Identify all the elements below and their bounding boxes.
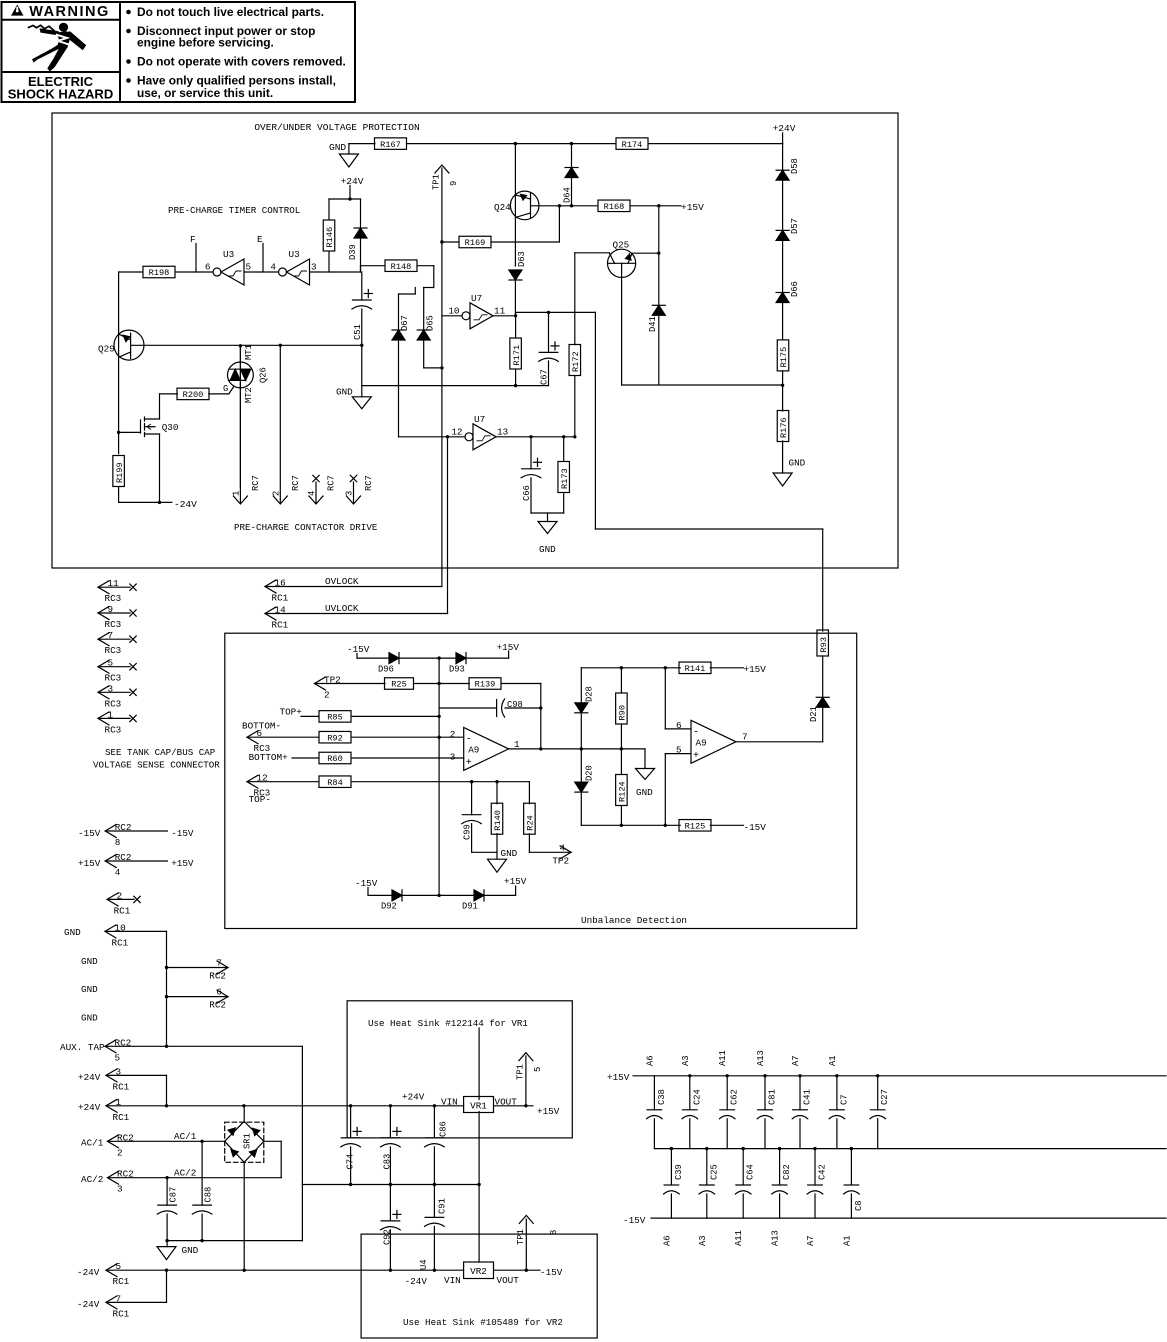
svg-text:TP2: TP2 — [552, 855, 569, 866]
wire pin11 output rail — [493, 315, 516, 317]
svg-text:PRE-CHARGE CONTACTOR DRIVE: PRE-CHARGE CONTACTOR DRIVE — [234, 522, 378, 533]
wire top rail — [407, 143, 616, 145]
inverter U3 pin4-3 — [279, 268, 287, 276]
svg-text:D57: D57 — [790, 218, 800, 234]
wire window comparator top rail — [581, 667, 680, 669]
resistor R85 — [319, 711, 351, 723]
svg-text:C38: C38 — [657, 1089, 667, 1105]
wire comparator out down to R93 line — [594, 312, 596, 529]
test point TP1 pin9 — [435, 165, 449, 173]
svg-text:AC/2: AC/2 — [174, 1168, 196, 1179]
svg-text:8: 8 — [115, 837, 121, 848]
svg-text:4: 4 — [115, 867, 121, 878]
wire A9 second output — [736, 741, 823, 743]
wire summing bus — [438, 658, 440, 895]
svg-text:+15V: +15V — [78, 858, 101, 869]
svg-text:C24: C24 — [692, 1089, 702, 1105]
wire SR1 right to AC/2 — [264, 1140, 281, 1142]
svg-text:R174: R174 — [622, 140, 643, 150]
connector RC7 pin2 — [279, 345, 281, 503]
warning box frame — [2, 2, 356, 102]
svg-text:RC7: RC7 — [251, 475, 261, 491]
svg-text:3: 3 — [311, 262, 317, 273]
ground under R140 — [488, 859, 507, 872]
svg-text:GND: GND — [789, 458, 806, 469]
wire C66-R173 gnd — [531, 512, 564, 514]
svg-text:GND: GND — [636, 787, 653, 798]
svg-text:BOTTOM+: BOTTOM+ — [249, 752, 288, 763]
wire comparator bottom rail — [581, 824, 680, 826]
diode D91 — [474, 890, 484, 901]
svg-text:Unbalance Detection: Unbalance Detection — [581, 915, 687, 926]
svg-text:GND: GND — [81, 1013, 98, 1024]
svg-text:TP1: TP1 — [516, 1064, 526, 1080]
svg-text:D28: D28 — [585, 686, 595, 702]
resistor R92 — [319, 731, 351, 743]
svg-text:8: 8 — [549, 1230, 559, 1235]
connector RC7 pin4 — [313, 475, 319, 481]
resistor R24 — [528, 782, 530, 804]
capacitor C83 — [389, 1106, 391, 1138]
connector RC7 pin3 — [350, 475, 356, 481]
svg-text:RC2: RC2 — [209, 1000, 226, 1011]
svg-text:-24V: -24V — [405, 1276, 428, 1287]
capacitor C91 — [433, 1185, 435, 1218]
diode D93 — [456, 653, 466, 664]
resistor R172 — [574, 253, 576, 345]
svg-text:R200: R200 — [183, 390, 204, 400]
svg-text:R141: R141 — [685, 664, 706, 674]
capacitor C98 — [439, 707, 497, 709]
svg-text:C87: C87 — [169, 1187, 179, 1203]
svg-text:+15V: +15V — [497, 642, 520, 653]
svg-text:10: 10 — [448, 305, 459, 316]
svg-text:+15V: +15V — [171, 858, 194, 869]
svg-text:GND: GND — [539, 544, 556, 555]
svg-text:A9: A9 — [468, 744, 479, 755]
warning bullet list — [126, 10, 131, 15]
svg-text:D41: D41 — [648, 316, 658, 332]
svg-text:5: 5 — [676, 745, 682, 756]
connector RC1 pin2 — [107, 893, 118, 906]
resistor R125 — [679, 820, 711, 832]
unbalance detection box — [225, 633, 857, 928]
svg-text:+15V: +15V — [681, 202, 704, 213]
svg-text:R171: R171 — [512, 345, 522, 366]
diode D21 — [816, 696, 829, 698]
svg-text:U3: U3 — [223, 249, 234, 260]
connector RC2 pin6 — [167, 996, 229, 998]
wire A9 output row — [509, 748, 645, 750]
resistor R140 — [491, 803, 503, 834]
svg-text:11: 11 — [494, 305, 506, 316]
connector RC3 pin1 — [98, 712, 109, 725]
svg-text:+24V: +24V — [773, 123, 796, 134]
heat sink box VR1 — [347, 1001, 572, 1138]
wire R148 to diodes — [417, 265, 434, 267]
svg-text:C41: C41 — [803, 1089, 813, 1105]
svg-text:-15V: -15V — [355, 878, 378, 889]
svg-text:2: 2 — [324, 690, 330, 701]
wire between inverters — [244, 271, 278, 273]
svg-text:+24V: +24V — [341, 176, 364, 187]
svg-text:6: 6 — [205, 262, 211, 273]
capacitor C42 — [813, 1147, 816, 1150]
capacitor C86 — [433, 1106, 435, 1138]
capacitor C88 — [201, 1141, 203, 1205]
diode D41 — [658, 206, 660, 305]
svg-text:RC3: RC3 — [105, 724, 122, 735]
electric shock icon — [29, 25, 55, 30]
svg-text:R168: R168 — [604, 202, 625, 212]
connector RC1 pin14 UVLOCK — [265, 607, 276, 620]
svg-text:Q24: Q24 — [494, 202, 511, 213]
svg-text:12: 12 — [451, 426, 462, 437]
svg-text:RC2: RC2 — [209, 971, 226, 982]
wire SR1 bottom to -24V rail — [243, 1162, 245, 1270]
svg-text:A11: A11 — [734, 1230, 744, 1246]
svg-text:-15V: -15V — [623, 1215, 646, 1226]
capacitor C27 — [876, 1074, 879, 1077]
svg-text:+15V: +15V — [607, 1072, 630, 1083]
wire pin13 output — [496, 436, 575, 438]
svg-text:SR1: SR1 — [243, 1133, 253, 1149]
svg-text:TP1: TP1 — [432, 174, 442, 190]
svg-text:-: - — [693, 727, 699, 738]
svg-text:OVER/UNDER VOLTAGE PROTECTION: OVER/UNDER VOLTAGE PROTECTION — [254, 122, 419, 133]
svg-text:3: 3 — [117, 1184, 123, 1195]
svg-text:-: - — [466, 734, 472, 745]
wire jog to R148 — [360, 266, 362, 272]
svg-text:VR1: VR1 — [470, 1101, 487, 1112]
svg-text:GND: GND — [336, 387, 353, 398]
wire rail to +24V corner — [649, 143, 783, 145]
svg-text:C91: C91 — [438, 1198, 448, 1214]
resistor R169 — [440, 240, 443, 243]
svg-text:R60: R60 — [327, 754, 342, 764]
wire aux tap down — [301, 1046, 303, 1240]
resistor R90 — [616, 693, 628, 724]
ground bottom left — [166, 1241, 168, 1247]
capacitor C66 — [530, 437, 532, 469]
svg-text:-24V: -24V — [174, 499, 197, 510]
mosfet Q30 — [119, 431, 141, 433]
svg-text:RC3: RC3 — [105, 698, 122, 709]
resistor R60 — [319, 752, 351, 764]
wire mid gnd rail — [302, 1184, 479, 1186]
resistor R176 — [777, 411, 789, 442]
svg-text:GND: GND — [81, 956, 98, 967]
svg-text:TOP-: TOP- — [249, 794, 271, 805]
svg-text:GND: GND — [329, 142, 346, 153]
svg-text:Use Heat Sink #122144 for VR1: Use Heat Sink #122144 for VR1 — [368, 1018, 528, 1029]
test point TP1 pin8 — [525, 1219, 527, 1270]
svg-text:R125: R125 — [685, 822, 706, 832]
svg-text:A6: A6 — [662, 1235, 672, 1246]
regulator VR1 — [464, 1097, 494, 1113]
svg-text:6: 6 — [676, 720, 682, 731]
svg-text:+24V: +24V — [402, 1092, 425, 1103]
svg-text:MT2: MT2 — [244, 387, 254, 403]
wire gnd stack vertical — [166, 931, 168, 1046]
svg-text:2: 2 — [450, 729, 456, 740]
svg-text:+15V: +15V — [537, 1106, 560, 1117]
resistor R146 — [328, 199, 330, 219]
svg-text:D67: D67 — [400, 315, 410, 331]
svg-text:3: 3 — [450, 752, 456, 763]
svg-text:-15V: -15V — [540, 1267, 563, 1278]
svg-text:RC3: RC3 — [105, 619, 122, 630]
svg-text:OVLOCK: OVLOCK — [325, 576, 359, 587]
svg-text:A3: A3 — [681, 1055, 691, 1066]
svg-text:U7: U7 — [471, 293, 482, 304]
svg-text:D93: D93 — [449, 665, 465, 675]
svg-text:MT1: MT1 — [244, 344, 254, 360]
ground mid stub — [644, 749, 646, 769]
svg-text:D20: D20 — [585, 765, 595, 781]
connector RC3 pin6 — [247, 731, 258, 744]
resistor R124 — [616, 775, 628, 806]
svg-text:D66: D66 — [790, 281, 800, 297]
connector RC3 pin5 — [98, 660, 109, 673]
svg-text:RC3: RC3 — [105, 593, 122, 604]
svg-text:RC7: RC7 — [327, 475, 337, 491]
svg-text:F: F — [190, 234, 196, 245]
svg-text:R146: R146 — [325, 227, 335, 248]
svg-text:GND: GND — [81, 984, 98, 995]
connector RC3 pin7 — [98, 633, 109, 646]
svg-text:R90: R90 — [618, 705, 628, 720]
svg-text:RC1: RC1 — [113, 1081, 130, 1092]
diode D64 — [571, 144, 573, 168]
svg-text:R139: R139 — [475, 680, 496, 690]
svg-text:RC1: RC1 — [114, 905, 131, 916]
resistor R175 — [777, 340, 789, 371]
op-amp A9 second — [664, 668, 666, 729]
svg-text:R176: R176 — [779, 417, 789, 438]
svg-text:C81: C81 — [768, 1089, 778, 1105]
regulator VR2 — [464, 1262, 494, 1279]
svg-text:A1: A1 — [842, 1235, 852, 1246]
svg-text:E: E — [257, 234, 263, 245]
wire gnd rail bottom left — [167, 1240, 302, 1242]
svg-text:VIN: VIN — [441, 1096, 458, 1107]
svg-text:UVLOCK: UVLOCK — [325, 603, 359, 614]
svg-text:C27: C27 — [880, 1089, 890, 1105]
svg-text:4: 4 — [560, 842, 566, 853]
svg-text:C88: C88 — [204, 1187, 214, 1203]
connector RC1 pin16 OVLOCK — [265, 580, 276, 593]
svg-text:RC1: RC1 — [113, 1276, 130, 1287]
test point TP2 pin4 — [529, 851, 571, 853]
svg-text:R140: R140 — [493, 810, 503, 831]
wire -24V rail bottom — [106, 1269, 464, 1271]
resistor R93 feed — [822, 529, 824, 631]
svg-text:A3: A3 — [698, 1235, 708, 1246]
resistor R148 — [385, 260, 417, 272]
svg-text:A13: A13 — [756, 1050, 766, 1066]
connector RC3 pin3 — [98, 686, 109, 699]
svg-text:VR2: VR2 — [470, 1266, 487, 1277]
connector RC3 pin12 — [247, 775, 258, 788]
resistor R198 — [119, 271, 143, 273]
svg-text:A6: A6 — [645, 1055, 655, 1066]
svg-text:1: 1 — [232, 491, 242, 496]
svg-text:5: 5 — [533, 1067, 543, 1072]
svg-text:C82: C82 — [782, 1164, 792, 1180]
wire Q29 collector row — [131, 344, 362, 346]
svg-text:-15V: -15V — [78, 828, 101, 839]
node R175-R176 junction — [781, 384, 784, 387]
wire inverter input row — [310, 271, 361, 273]
svg-text:+15V: +15V — [744, 664, 767, 675]
buffer U7 pin12-13 — [465, 433, 473, 441]
svg-text:+15V: +15V — [504, 876, 527, 887]
svg-text:TP1: TP1 — [516, 1229, 526, 1245]
capacitor C8 — [850, 1147, 853, 1150]
resistor R200 — [159, 394, 161, 416]
wire D65 to TP1 net — [424, 367, 442, 369]
capacitor C25 — [705, 1147, 708, 1150]
diode D20 — [580, 749, 582, 783]
wire UVLOCK vertical — [447, 437, 449, 614]
bridge rectifier SR1 — [225, 1122, 264, 1162]
wire VR1 out — [494, 1105, 534, 1107]
svg-text:C86: C86 — [439, 1121, 449, 1137]
capacitor C92 — [389, 1185, 391, 1221]
svg-text:R167: R167 — [380, 140, 401, 150]
svg-text:VOUT: VOUT — [497, 1275, 520, 1286]
svg-text:7: 7 — [216, 958, 222, 969]
diode D92 — [392, 890, 402, 901]
svg-text:R92: R92 — [327, 733, 342, 743]
svg-text:4: 4 — [270, 262, 276, 273]
svg-text:RC1: RC1 — [272, 620, 289, 631]
svg-text:AC/1: AC/1 — [174, 1131, 197, 1142]
wire +24V rail bottom — [106, 1105, 464, 1107]
svg-text:+: + — [466, 758, 472, 769]
svg-text:RC1: RC1 — [113, 1308, 130, 1319]
svg-text:-15V: -15V — [347, 644, 370, 655]
connector RC3 pin9 — [98, 607, 109, 620]
inverter U3 pin6-5 — [213, 268, 221, 276]
resistor R171 — [510, 338, 521, 369]
resistor R174 — [616, 138, 648, 150]
op-amp A9 first — [464, 727, 509, 770]
wire R139 feedback — [501, 683, 541, 685]
svg-text:5: 5 — [246, 262, 252, 273]
svg-text:D65: D65 — [426, 315, 436, 331]
svg-text:RC7: RC7 — [364, 475, 374, 491]
connector RC3 pin11 — [98, 581, 109, 594]
svg-text:R84: R84 — [327, 778, 342, 788]
heat sink box VR2 — [361, 1234, 597, 1338]
svg-text:A1: A1 — [828, 1055, 838, 1066]
svg-text:C42: C42 — [818, 1164, 828, 1180]
svg-text:6: 6 — [216, 987, 222, 998]
svg-text:SHOCK HAZARD: SHOCK HAZARD — [8, 87, 113, 102]
svg-text:G: G — [223, 384, 228, 394]
svg-text:+24V: +24V — [78, 1102, 101, 1113]
svg-text:D63: D63 — [517, 251, 527, 267]
svg-text:U7: U7 — [474, 414, 485, 425]
svg-text:-24V: -24V — [77, 1299, 100, 1310]
svg-text:C64: C64 — [746, 1164, 756, 1180]
svg-text:A9: A9 — [696, 737, 707, 748]
svg-text:C8: C8 — [854, 1200, 864, 1211]
svg-text:+: + — [693, 751, 699, 762]
diode D58 — [776, 169, 789, 171]
svg-text:-15V: -15V — [744, 822, 767, 833]
svg-text:13: 13 — [497, 426, 508, 437]
resistor R168 — [598, 200, 630, 212]
svg-text:5: 5 — [115, 1052, 121, 1063]
wire -24V rail — [119, 501, 172, 503]
resistor R173 — [563, 437, 565, 461]
svg-text:R169: R169 — [465, 238, 486, 248]
svg-text:Do not touch live electrical p: Do not touch live electrical parts. — [137, 5, 324, 19]
over/under voltage protection box — [52, 113, 898, 568]
svg-text:SEE TANK CAP/BUS CAP: SEE TANK CAP/BUS CAP — [105, 747, 216, 758]
node Q29 base junction — [117, 431, 120, 434]
svg-text:R24: R24 — [526, 815, 536, 830]
diode D65 — [423, 288, 425, 331]
svg-text:RC1: RC1 — [113, 1112, 130, 1123]
svg-text:R173: R173 — [560, 468, 570, 489]
svg-text:D91: D91 — [462, 902, 478, 912]
svg-text:RC3: RC3 — [105, 645, 122, 656]
svg-text:R198: R198 — [149, 268, 170, 278]
svg-text:AC/2: AC/2 — [81, 1174, 103, 1185]
regulator VR1 center pin — [478, 1028, 480, 1262]
diode D57 — [776, 229, 789, 231]
svg-text:A11: A11 — [718, 1050, 728, 1066]
resistor R167 — [375, 138, 407, 150]
svg-text:VOLTAGE SENSE CONNECTOR: VOLTAGE SENSE CONNECTOR — [93, 760, 220, 771]
triac Q26 — [228, 362, 254, 388]
svg-text:R25: R25 — [391, 680, 406, 690]
capacitor C51 — [361, 272, 363, 300]
connector RC2 pin7 — [167, 967, 229, 969]
svg-text:GND: GND — [501, 848, 518, 859]
diode D63 — [509, 279, 522, 281]
connector RC7 pin1 — [239, 346, 241, 503]
svg-text:RC3: RC3 — [105, 673, 122, 684]
svg-text:GND: GND — [64, 927, 81, 938]
svg-text:GND: GND — [182, 1245, 199, 1256]
svg-text:D58: D58 — [790, 158, 800, 174]
svg-text:AUX. TAP: AUX. TAP — [60, 1042, 105, 1053]
capacitor C87 — [166, 1178, 168, 1205]
svg-text:Q29: Q29 — [98, 344, 115, 355]
svg-text:2: 2 — [271, 491, 281, 496]
svg-text:use, or service this unit.: use, or service this unit. — [137, 86, 273, 100]
capacitor C74 — [350, 1106, 352, 1138]
svg-text:Use Heat Sink #105489 for VR2: Use Heat Sink #105489 for VR2 — [403, 1317, 563, 1328]
svg-text:C7: C7 — [839, 1094, 849, 1105]
svg-text:U4: U4 — [419, 1259, 429, 1270]
transistor Q24 — [514, 142, 517, 145]
svg-text:-15V: -15V — [171, 828, 194, 839]
svg-text:D96: D96 — [378, 665, 394, 675]
svg-text:3: 3 — [345, 491, 355, 496]
svg-text:9: 9 — [449, 181, 459, 186]
svg-text:Q26: Q26 — [259, 367, 269, 383]
svg-text:C39: C39 — [674, 1164, 684, 1180]
resistor R199 — [113, 456, 125, 487]
resistor R84 — [319, 776, 351, 788]
capacitor C82 — [778, 1147, 781, 1150]
